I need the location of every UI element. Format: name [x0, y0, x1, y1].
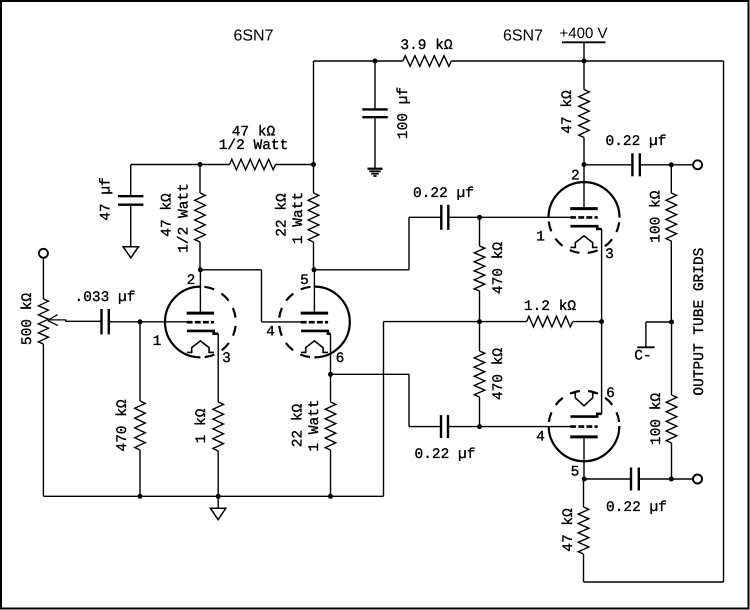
wire top bus right segment — [451, 60, 723, 62]
V4 plate (bottom) — [570, 435, 598, 438]
junction grid node / 470k — [138, 319, 143, 324]
V3 cathode — [570, 226, 601, 229]
wire right side vertical (B+ to lower 47k) — [723, 61, 725, 582]
ground (open triangle) at bus — [210, 496, 225, 519]
junction V2 plate node — [312, 267, 317, 272]
svg-text:C-: C- — [634, 349, 651, 365]
svg-text:470 kΩ: 470 kΩ — [491, 348, 507, 401]
V3 grid (dashed) — [570, 216, 598, 219]
triode V4 envelope (solid bottom half) — [549, 426, 620, 461]
V1 cathode — [187, 331, 218, 334]
triode V2 envelope (solid right half) — [314, 287, 349, 358]
junction screen node / 22k — [311, 162, 316, 167]
C- bias tap — [637, 322, 671, 347]
wire V2 plate to coupling cap A — [314, 217, 442, 269]
wire cap to V1 grid — [108, 321, 187, 323]
svg-text:1.2 kΩ: 1.2 kΩ — [524, 299, 577, 315]
capacitor C 0.22 uF (lower coupling B) — [440, 415, 442, 438]
V1 grid (dashed) — [187, 321, 214, 324]
input terminal — [39, 249, 48, 258]
svg-text:22 kΩ: 22 kΩ — [291, 403, 307, 447]
resistor R 47 kOhm 1/2 Watt (V1 plate load) — [195, 165, 206, 270]
svg-text:2: 2 — [187, 273, 196, 289]
svg-text:1 Watt: 1 Watt — [291, 192, 307, 244]
junction cap C / 100k upper — [669, 162, 674, 167]
svg-text:47 kΩ: 47 kΩ — [160, 193, 176, 237]
svg-text:0.22 µf: 0.22 µf — [413, 186, 474, 202]
svg-text:3.9 kΩ: 3.9 kΩ — [400, 38, 453, 54]
V1 heater — [187, 341, 214, 353]
wire ground return riser — [384, 322, 480, 497]
svg-text:100 kΩ: 100 kΩ — [649, 190, 665, 243]
svg-text:+400 V: +400 V — [560, 25, 608, 42]
svg-text:3: 3 — [605, 247, 614, 263]
potentiometer R 500 kOhm — [38, 299, 48, 344]
triode V1 envelope (solid left half) — [165, 287, 200, 358]
junction V4 plate node — [582, 477, 587, 482]
ground (open triangle) below 47uF — [123, 247, 138, 258]
svg-text:470 kΩ: 470 kΩ — [491, 242, 507, 295]
triode V3 envelope (dashed bottom half) — [549, 218, 620, 254]
V3 plate — [570, 207, 598, 210]
resistor R 1.2 kOhm (cathode link) — [480, 316, 602, 327]
svg-text:100 kΩ: 100 kΩ — [649, 393, 665, 446]
svg-text:3: 3 — [222, 351, 231, 367]
resistor R 47 kOhm 1/2 Watt (horizontal) — [230, 159, 276, 170]
V2 heater — [301, 341, 328, 353]
V1 plate — [187, 312, 214, 315]
triode V3 envelope (solid top half) — [549, 182, 620, 218]
svg-text:6: 6 — [336, 351, 345, 367]
resistor R 470 kOhm (input grid leak) — [135, 322, 146, 497]
triode V4 envelope (dashed top half) — [549, 391, 620, 426]
junction V2 cathode node — [328, 372, 333, 377]
ground (earth) below 100uF — [368, 169, 383, 176]
svg-text:4: 4 — [536, 430, 545, 446]
capacitor C .033 uF (input coupling) — [100, 309, 102, 334]
capacitor C 0.22 uF (lower output D) — [630, 468, 632, 491]
svg-text:0.22 µf: 0.22 µf — [606, 500, 667, 516]
svg-text:1: 1 — [153, 334, 162, 350]
svg-text:22 kΩ: 22 kΩ — [275, 193, 291, 237]
junction cap A / 470k upper — [477, 215, 482, 220]
svg-text:100 µf: 100 µf — [396, 87, 412, 139]
capacitor C 100 uF (decoupling) — [362, 61, 387, 168]
svg-text:5: 5 — [300, 273, 309, 289]
svg-text:470 kΩ: 470 kΩ — [115, 399, 131, 452]
junction 470k midpoint — [477, 319, 482, 324]
junction V3 plate node — [582, 162, 587, 167]
svg-text:0.22 µf: 0.22 µf — [415, 447, 476, 463]
junction top bus / +400V / 47k — [582, 59, 587, 64]
capacitor C 0.22 uF (upper coupling A) — [440, 205, 442, 230]
resistor R 100 kOhm (upper) — [666, 165, 677, 322]
triode V1 envelope (dashed right half) — [200, 287, 235, 358]
V4 cathode (top) — [570, 414, 601, 417]
junction ground bus / 470k — [138, 494, 143, 499]
V2 grid (dashed) — [301, 321, 328, 324]
junction V1 plate node — [198, 267, 203, 272]
power +400 V — [560, 25, 608, 61]
svg-text:1 Watt: 1 Watt — [307, 399, 323, 451]
svg-text:47 µf: 47 µf — [99, 177, 115, 221]
svg-text:.033 µf: .033 µf — [75, 290, 136, 306]
upper output terminal — [693, 160, 702, 169]
wire screen node right segment — [276, 164, 314, 166]
junction ground bus / 22k cathode — [328, 494, 333, 499]
resistor R 47 kOhm (V4 plate load) — [578, 479, 589, 582]
resistor R 470 kOhm (V3 grid leak) — [474, 217, 485, 321]
resistor R 100 kOhm (lower) — [666, 322, 677, 479]
V4 grid (dashed) — [570, 425, 598, 428]
resistor R 22 kOhm 1 Watt (V2 cathode) — [325, 374, 336, 496]
svg-text:2: 2 — [571, 169, 580, 185]
svg-text:1: 1 — [536, 230, 545, 246]
V4 heater (flipped) — [571, 393, 598, 406]
wire V1 plate to V2 grid (direct coupling) — [200, 270, 301, 322]
pot wiper arrow — [48, 315, 58, 326]
junction screen node / 47uF / 47k — [198, 162, 203, 167]
wire ground bus — [43, 495, 383, 497]
svg-text:6SN7: 6SN7 — [233, 28, 273, 45]
triode V2 envelope (dashed left half) — [279, 287, 314, 358]
wire screen node left segment — [131, 164, 230, 166]
svg-text:0.22 µf: 0.22 µf — [606, 134, 667, 150]
wire bottom right horizontal — [584, 581, 724, 583]
svg-text:OUTPUT TUBE GRIDS: OUTPUT TUBE GRIDS — [692, 248, 708, 396]
wire V3 cathode to V4 cathode — [601, 229, 603, 414]
svg-text:1 kΩ: 1 kΩ — [194, 408, 210, 443]
junction 100k midpoint / C- — [669, 320, 674, 325]
V2 plate — [301, 312, 328, 315]
junction cap B / 470k lower — [477, 424, 482, 429]
V2 cathode node wiring to cap B — [331, 334, 442, 427]
wire bus drop to front-end node — [313, 61, 315, 165]
capacitor C 47 uF — [118, 165, 143, 247]
svg-text:1/2 Watt: 1/2 Watt — [177, 183, 193, 253]
wire V3 plate to cap C — [584, 164, 632, 166]
junction ground bus / 1k — [216, 494, 221, 499]
junction 1.2k / cathode link — [599, 319, 604, 324]
wire cap B to V4 grid — [448, 426, 572, 428]
wire cap D to lower output terminal — [639, 478, 694, 480]
junction cap D / 100k lower — [669, 477, 674, 482]
svg-text:6SN7: 6SN7 — [503, 28, 543, 45]
wire cap A to V3 grid — [448, 216, 570, 218]
svg-text:4: 4 — [266, 325, 275, 341]
wire wiper to coupling cap — [50, 320, 102, 321]
svg-text:47 kΩ: 47 kΩ — [560, 90, 576, 134]
capacitor C 0.22 uF (upper output C) — [631, 153, 633, 176]
V3 heater — [571, 236, 598, 248]
junction top bus / 100uF — [373, 59, 378, 64]
svg-text:47 kΩ: 47 kΩ — [561, 508, 577, 552]
svg-text:5: 5 — [571, 465, 580, 481]
wire input terminal to pot — [42, 257, 44, 299]
resistor R 22 kOhm 1 Watt (V2 plate load) — [308, 165, 319, 270]
resistor R 3.9 kOhm (B+ dropping) — [403, 56, 452, 67]
resistor R 470 kOhm (V4 grid leak) — [474, 322, 485, 427]
svg-text:6: 6 — [606, 386, 615, 402]
wire top bus left segment — [314, 60, 403, 62]
wire pot bottom to ground bus — [42, 344, 44, 496]
V2 cathode — [301, 331, 330, 334]
svg-text:1/2 Watt: 1/2 Watt — [219, 138, 289, 154]
resistor R 47 kOhm (V3 plate load) — [579, 61, 590, 165]
lower output terminal — [693, 475, 702, 484]
resistor R 1 kOhm (V1 cathode) — [213, 334, 224, 497]
svg-text:500 kΩ: 500 kΩ — [20, 293, 36, 346]
wire V4 plate to cap D — [584, 478, 631, 480]
wire cap C to upper output terminal — [640, 164, 694, 166]
